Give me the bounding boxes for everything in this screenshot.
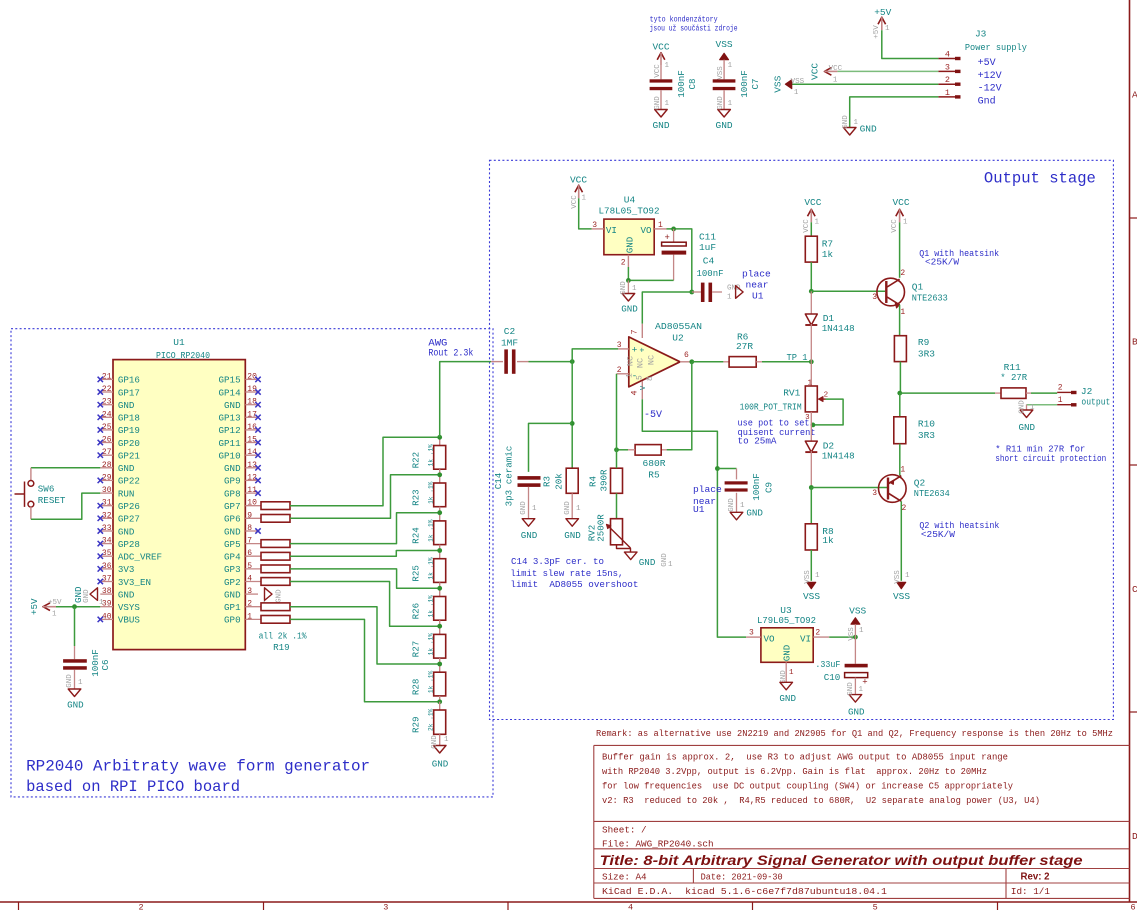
svg-text:GND: GND	[224, 526, 241, 537]
svg-text:1: 1	[740, 502, 745, 510]
svg-text:R4: R4	[588, 476, 599, 488]
svg-text:J3: J3	[975, 29, 987, 40]
svg-text:7: 7	[247, 537, 252, 546]
svg-text:Sheet: /: Sheet: /	[602, 824, 647, 835]
svg-text:GND: GND	[564, 530, 581, 541]
svg-text:J2: J2	[1081, 386, 1093, 397]
svg-text:GND: GND	[621, 304, 638, 315]
svg-text:33: 33	[102, 524, 112, 533]
svg-text:RP2040 Arbitraty wave form gen: RP2040 Arbitraty wave form generator	[26, 758, 370, 776]
svg-text:1: 1	[444, 736, 449, 744]
svg-text:3p3 ceramic: 3p3 ceramic	[504, 446, 515, 507]
svg-text:5: 5	[247, 562, 252, 571]
svg-text:GND: GND	[625, 236, 636, 253]
svg-text:27: 27	[102, 448, 112, 457]
svg-text:limit AD8055 overshoot: limit AD8055 overshoot	[510, 579, 638, 590]
svg-text:U1: U1	[693, 504, 705, 515]
svg-text:GP3: GP3	[224, 564, 241, 575]
svg-text:Buffer gain is approx. 2, use: Buffer gain is approx. 2, use R3 to adju…	[602, 751, 1008, 762]
svg-text:VCC: VCC	[810, 63, 821, 80]
svg-text:VSS: VSS	[791, 78, 805, 86]
svg-text:GP14: GP14	[219, 387, 242, 398]
svg-text:1k: 1k	[822, 535, 834, 546]
svg-text:GP15: GP15	[219, 375, 241, 386]
svg-text:R28: R28	[411, 679, 422, 696]
svg-text:GND: GND	[118, 400, 135, 411]
svg-text:Q2: Q2	[914, 477, 926, 488]
svg-text:GND: GND	[652, 120, 669, 131]
svg-text:+5V: +5V	[978, 58, 996, 69]
svg-text:Output stage: Output stage	[984, 169, 1096, 187]
svg-text:1: 1	[1030, 404, 1035, 412]
svg-text:L78L05_TO92: L78L05_TO92	[599, 206, 660, 217]
svg-text:VSS: VSS	[894, 570, 902, 584]
svg-text:1: 1	[532, 505, 537, 513]
svg-text:TP 1: TP 1	[787, 352, 808, 363]
svg-text:31: 31	[102, 499, 112, 508]
svg-text:27R: 27R	[736, 341, 753, 352]
svg-text:VCC: VCC	[804, 197, 821, 208]
svg-text:NC: NC	[626, 356, 636, 366]
svg-text:1: 1	[815, 219, 820, 227]
svg-text:34: 34	[102, 537, 112, 546]
svg-text:32: 32	[102, 511, 112, 520]
svg-text:Title: 8-bit Arbitrary Signal: Title: 8-bit Arbitrary Signal Generator …	[600, 853, 1083, 868]
svg-text:* 27R: * 27R	[1000, 372, 1027, 383]
svg-text:C7: C7	[750, 78, 761, 89]
svg-text:GP6: GP6	[224, 514, 241, 525]
svg-text:near: near	[746, 279, 769, 290]
svg-text:U1: U1	[173, 337, 185, 348]
svg-text:1: 1	[900, 466, 905, 475]
svg-text:v2: R3 reduced to 20k , R4,R: v2: R3 reduced to 20k , R4,R5 reduced to…	[602, 795, 1040, 806]
svg-text:1k .1%: 1k .1%	[428, 633, 435, 656]
svg-text:VSS: VSS	[803, 591, 820, 602]
svg-text:4: 4	[630, 390, 640, 395]
svg-text:4: 4	[247, 575, 252, 584]
svg-text:VCC: VCC	[829, 65, 843, 73]
svg-text:680R: 680R	[643, 458, 666, 469]
svg-text:GP1: GP1	[224, 602, 241, 613]
svg-text:R26: R26	[411, 603, 422, 620]
svg-text:C2: C2	[504, 326, 516, 337]
svg-text:1: 1	[728, 100, 733, 108]
svg-text:Power supply: Power supply	[965, 42, 1027, 53]
svg-text:1: 1	[728, 62, 733, 70]
svg-text:GND: GND	[779, 693, 796, 704]
svg-text:R22: R22	[411, 452, 422, 469]
svg-text:1: 1	[727, 294, 732, 302]
svg-text:1: 1	[794, 89, 799, 97]
svg-text:GP0: GP0	[224, 615, 241, 626]
svg-text:R25: R25	[411, 565, 422, 582]
svg-text:1: 1	[807, 379, 812, 387]
svg-text:1: 1	[900, 308, 905, 317]
svg-text:<25K/W: <25K/W	[925, 256, 959, 267]
svg-text:VSS: VSS	[716, 39, 733, 50]
svg-text:AD8055AN: AD8055AN	[655, 321, 702, 332]
svg-text:1: 1	[658, 221, 663, 230]
svg-text:GND: GND	[782, 644, 793, 661]
svg-text:R24: R24	[411, 527, 422, 544]
svg-text:6: 6	[1130, 903, 1135, 910]
svg-text:Date: 2021-09-30: Date: 2021-09-30	[701, 872, 783, 883]
svg-text:R27: R27	[411, 641, 422, 658]
svg-text:GND: GND	[431, 735, 439, 749]
svg-text:1: 1	[52, 611, 57, 619]
svg-text:+: +	[664, 233, 669, 243]
svg-text:GND: GND	[620, 281, 628, 295]
svg-text:1k .1%: 1k .1%	[428, 557, 435, 580]
svg-text:2: 2	[247, 600, 252, 609]
svg-text:1: 1	[99, 599, 104, 607]
svg-text:3V3_EN: 3V3_EN	[118, 577, 151, 588]
svg-text:2: 2	[621, 259, 626, 268]
svg-text:GND: GND	[83, 589, 91, 603]
svg-text:1: 1	[247, 612, 252, 621]
svg-text:3: 3	[749, 629, 754, 638]
svg-text:RESET: RESET	[38, 495, 66, 506]
svg-text:GND: GND	[432, 759, 449, 770]
svg-text:GP28: GP28	[118, 539, 140, 550]
svg-text:2: 2	[138, 903, 143, 910]
svg-text:100R_POT_TRIM: 100R_POT_TRIM	[740, 401, 802, 412]
svg-text:limit slew rate 15ns,: limit slew rate 15ns,	[510, 568, 623, 579]
svg-text:1: 1	[632, 285, 637, 293]
svg-text:GP26: GP26	[118, 501, 140, 512]
svg-text:390R: 390R	[599, 469, 610, 492]
svg-text:3: 3	[247, 587, 252, 596]
svg-text:4: 4	[945, 50, 950, 60]
svg-text:File: AWG_RP2040.sch: File: AWG_RP2040.sch	[602, 838, 714, 849]
svg-text:R7: R7	[822, 239, 833, 250]
svg-text:3: 3	[945, 62, 950, 72]
svg-text:GND: GND	[118, 589, 135, 600]
svg-text:7: 7	[630, 329, 640, 334]
svg-text:3: 3	[592, 221, 597, 230]
svg-text:1: 1	[815, 572, 820, 580]
svg-text:B: B	[1132, 337, 1137, 348]
svg-text:RV1: RV1	[783, 388, 800, 399]
svg-text:R23: R23	[411, 489, 422, 506]
svg-text:<25K/W: <25K/W	[921, 529, 955, 540]
svg-text:D: D	[1132, 831, 1137, 842]
svg-text:40: 40	[102, 612, 112, 621]
svg-text:GND: GND	[860, 123, 877, 134]
svg-text:GND: GND	[848, 707, 865, 718]
svg-text:GND: GND	[118, 463, 135, 474]
svg-text:output: output	[1081, 397, 1110, 408]
svg-text:1k .1%: 1k .1%	[428, 519, 435, 542]
svg-text:+5V: +5V	[874, 7, 891, 18]
svg-text:2: 2	[902, 504, 907, 513]
svg-text:1: 1	[665, 100, 670, 108]
svg-text:GP13: GP13	[219, 413, 241, 424]
svg-text:GP21: GP21	[118, 451, 141, 462]
svg-text:1: 1	[1058, 396, 1063, 405]
svg-text:2: 2	[824, 391, 829, 399]
svg-text:GND: GND	[728, 498, 736, 512]
svg-text:Id: 1/1: Id: 1/1	[1011, 886, 1050, 897]
svg-text:2: 2	[945, 75, 950, 85]
svg-text:GND: GND	[746, 508, 763, 519]
svg-text:GND: GND	[224, 400, 241, 411]
svg-text:GP16: GP16	[118, 375, 140, 386]
svg-text:1: 1	[665, 62, 670, 70]
svg-text:Q1: Q1	[912, 281, 924, 292]
svg-text:short circuit protection: short circuit protection	[995, 453, 1106, 464]
svg-text:1: 1	[582, 195, 587, 203]
svg-text:VI: VI	[800, 634, 811, 645]
svg-text:10: 10	[247, 499, 257, 508]
svg-text:GND: GND	[716, 120, 733, 131]
svg-text:GP22: GP22	[118, 476, 140, 487]
svg-text:R9: R9	[918, 337, 930, 348]
svg-text:to 25mA: to 25mA	[738, 436, 777, 447]
svg-text:C9: C9	[763, 482, 774, 493]
svg-text:all 2k .1%: all 2k .1%	[259, 631, 307, 642]
svg-text:2: 2	[1058, 384, 1063, 393]
svg-text:1: 1	[903, 219, 908, 227]
svg-text:100nF: 100nF	[739, 70, 750, 98]
svg-text:L79L05_TO92: L79L05_TO92	[757, 615, 816, 626]
svg-text:with RP2040 3.2Vpp, output is: with RP2040 3.2Vpp, output is 6.2Vpp. Ga…	[602, 766, 987, 777]
svg-text:30: 30	[102, 486, 112, 495]
svg-text:1k .1%: 1k .1%	[428, 444, 435, 467]
svg-text:R5: R5	[648, 470, 660, 481]
svg-text:2: 2	[900, 269, 905, 278]
svg-text:+5V: +5V	[29, 598, 40, 615]
svg-text:R19: R19	[273, 642, 290, 653]
svg-text:PICO_RP2040: PICO_RP2040	[156, 350, 210, 361]
svg-text:GP18: GP18	[118, 413, 140, 424]
svg-text:2: 2	[815, 629, 820, 638]
svg-text:1k: 1k	[822, 249, 834, 260]
svg-text:GP4: GP4	[224, 552, 241, 563]
svg-text:+: +	[862, 678, 867, 688]
svg-text:100nF: 100nF	[676, 70, 687, 98]
svg-text:GP19: GP19	[118, 425, 140, 436]
svg-text:+12V: +12V	[978, 71, 1002, 82]
svg-text:26: 26	[102, 436, 112, 445]
svg-text:1N4148: 1N4148	[822, 323, 855, 334]
svg-text:R10: R10	[918, 419, 935, 430]
svg-text:Gnd: Gnd	[978, 95, 996, 107]
svg-text:GP12: GP12	[219, 425, 241, 436]
svg-text:R3: R3	[542, 476, 553, 487]
svg-text:100nF: 100nF	[751, 473, 762, 501]
svg-text:GND: GND	[224, 589, 241, 600]
svg-text:1: 1	[789, 669, 794, 677]
svg-text:GND: GND	[118, 526, 135, 537]
svg-text:37: 37	[102, 575, 112, 584]
svg-text:1: 1	[905, 572, 910, 580]
svg-text:3V3: 3V3	[118, 564, 135, 575]
svg-text:5: 5	[873, 903, 878, 910]
svg-text:-5V: -5V	[644, 410, 662, 421]
svg-text:38: 38	[102, 587, 112, 596]
svg-text:+5V: +5V	[48, 599, 62, 607]
svg-text:NTE2634: NTE2634	[914, 488, 950, 499]
svg-text:NC: NC	[647, 355, 657, 365]
svg-text:29: 29	[102, 473, 112, 482]
svg-text:GND: GND	[67, 700, 84, 711]
svg-text:1: 1	[668, 561, 673, 569]
svg-text:1uF: 1uF	[699, 242, 716, 253]
svg-text:C10: C10	[824, 672, 841, 683]
svg-text:3R3: 3R3	[918, 349, 935, 360]
svg-text:U1: U1	[752, 290, 764, 301]
svg-text:1: 1	[854, 119, 859, 127]
svg-text:1: 1	[885, 25, 890, 33]
svg-text:Rout 2.3k: Rout 2.3k	[428, 347, 473, 359]
svg-text:+: +	[637, 347, 647, 352]
svg-text:VBUS: VBUS	[118, 615, 141, 626]
svg-text:1: 1	[859, 627, 864, 635]
svg-text:GP8: GP8	[224, 488, 241, 499]
svg-text:GND: GND	[717, 96, 725, 110]
svg-text:GND: GND	[1019, 400, 1027, 414]
svg-text:C11: C11	[699, 232, 716, 243]
svg-text:ADC_VREF: ADC_VREF	[118, 552, 162, 563]
svg-text:21: 21	[102, 372, 112, 381]
svg-text:1: 1	[626, 373, 635, 378]
svg-text:C14 3.3pF cer. to: C14 3.3pF cer. to	[511, 556, 604, 567]
svg-text:SW6: SW6	[38, 484, 55, 495]
svg-text:GND: GND	[520, 501, 528, 515]
svg-text:20k: 20k	[554, 473, 565, 490]
svg-text:C: C	[1132, 584, 1137, 595]
svg-text:3: 3	[617, 341, 622, 350]
svg-text:VSS: VSS	[773, 75, 784, 92]
svg-text:3: 3	[383, 903, 388, 910]
svg-text:NC: NC	[636, 358, 646, 368]
svg-text:VCC: VCC	[891, 219, 899, 233]
svg-text:GND: GND	[847, 682, 855, 696]
svg-text:GND: GND	[564, 501, 572, 515]
svg-text:1: 1	[576, 505, 581, 513]
svg-text:6: 6	[684, 351, 689, 360]
svg-text:Rev: 2: Rev: 2	[1021, 872, 1050, 883]
svg-text:R29: R29	[411, 716, 422, 733]
svg-text:2: 2	[617, 366, 622, 375]
svg-text:1k .1%: 1k .1%	[428, 481, 435, 504]
svg-text:NTE2633: NTE2633	[912, 293, 948, 304]
svg-text:GP20: GP20	[118, 438, 140, 449]
svg-text:22: 22	[102, 385, 112, 394]
svg-text:GP5: GP5	[224, 539, 241, 550]
svg-text:for low frequencies use DC ou: for low frequencies use DC output coupli…	[602, 780, 1013, 791]
svg-text:VSS: VSS	[804, 570, 812, 584]
svg-text:C14: C14	[493, 472, 504, 489]
svg-text:VCC: VCC	[570, 174, 587, 185]
svg-text:VO: VO	[764, 634, 776, 645]
svg-text:C6: C6	[100, 659, 111, 670]
svg-text:GP7: GP7	[224, 501, 241, 512]
svg-text:1: 1	[945, 88, 950, 98]
svg-text:place: place	[693, 484, 722, 495]
svg-text:3R3: 3R3	[918, 430, 935, 441]
svg-text:VCC: VCC	[652, 42, 669, 53]
svg-text:GP2: GP2	[224, 577, 241, 588]
svg-text:GP9: GP9	[224, 476, 241, 487]
svg-text:GND: GND	[842, 115, 850, 129]
svg-text:.33uF: .33uF	[815, 659, 840, 670]
svg-text:4: 4	[628, 903, 633, 910]
svg-text:GND: GND	[521, 530, 538, 541]
svg-text:1N4148: 1N4148	[822, 451, 855, 462]
svg-text:25: 25	[102, 423, 112, 432]
svg-text:GND: GND	[73, 586, 84, 603]
svg-text:5: 5	[636, 375, 645, 380]
svg-text:8: 8	[247, 524, 252, 533]
svg-text:24: 24	[102, 410, 112, 419]
svg-text:VSS: VSS	[849, 606, 866, 617]
svg-text:VSS: VSS	[893, 591, 910, 602]
svg-text:A: A	[1132, 90, 1137, 101]
svg-text:2k .1%: 2k .1%	[428, 708, 435, 731]
svg-text:VO: VO	[640, 225, 652, 236]
svg-text:3: 3	[872, 489, 877, 498]
svg-text:C8: C8	[687, 78, 698, 89]
svg-text:-12V: -12V	[978, 84, 1002, 95]
svg-text:U2: U2	[672, 333, 684, 344]
svg-text:GP27: GP27	[118, 514, 140, 525]
svg-text:100nF: 100nF	[697, 268, 724, 279]
svg-text:U4: U4	[624, 195, 636, 206]
svg-text:VCC: VCC	[803, 219, 811, 233]
svg-text:+5V: +5V	[873, 25, 881, 39]
svg-text:GND: GND	[639, 557, 656, 568]
svg-text:9: 9	[247, 511, 252, 520]
svg-text:GP10: GP10	[219, 451, 241, 462]
svg-text:VCC: VCC	[892, 197, 909, 208]
svg-text:GP11: GP11	[219, 438, 242, 449]
svg-text:GND: GND	[654, 96, 662, 110]
svg-text:35: 35	[102, 549, 112, 558]
svg-text:1: 1	[78, 679, 83, 687]
svg-text:C4: C4	[703, 256, 715, 267]
svg-text:1MF: 1MF	[501, 337, 518, 348]
svg-text:GP17: GP17	[118, 387, 140, 398]
svg-text:KiCad E.D.A. kicad 5.1.6-c6e7: KiCad E.D.A. kicad 5.1.6-c6e7f7d87ubuntu…	[602, 886, 887, 897]
svg-text:VI: VI	[606, 225, 617, 236]
svg-text:1k .1%: 1k .1%	[428, 595, 435, 618]
svg-text:GND: GND	[224, 463, 241, 474]
svg-text:6: 6	[247, 549, 252, 558]
svg-text:2500R: 2500R	[596, 514, 607, 542]
svg-text:1: 1	[859, 686, 864, 694]
svg-text:Size: A4: Size: A4	[602, 872, 647, 883]
svg-text:1k .1%: 1k .1%	[428, 671, 435, 694]
svg-text:GND: GND	[66, 674, 74, 688]
svg-text:GND: GND	[276, 589, 284, 603]
svg-text:28: 28	[102, 461, 112, 470]
svg-text:jsou už součásti zdroje: jsou už součásti zdroje	[650, 24, 738, 34]
svg-text:GND: GND	[1019, 422, 1036, 433]
svg-text:RUN: RUN	[118, 488, 135, 499]
svg-text:VCC: VCC	[654, 64, 662, 78]
svg-text:VSS: VSS	[717, 66, 725, 80]
svg-text:based on RPI PICO board: based on RPI PICO board	[26, 778, 240, 796]
svg-text:Remark: as alternative use 2N2: Remark: as alternative use 2N2219 and 2N…	[596, 729, 1113, 739]
svg-text:place: place	[742, 268, 771, 279]
svg-text:VSYS: VSYS	[118, 602, 141, 613]
svg-text:23: 23	[102, 398, 112, 407]
svg-text:36: 36	[102, 562, 112, 571]
svg-text:8: 8	[646, 376, 655, 381]
